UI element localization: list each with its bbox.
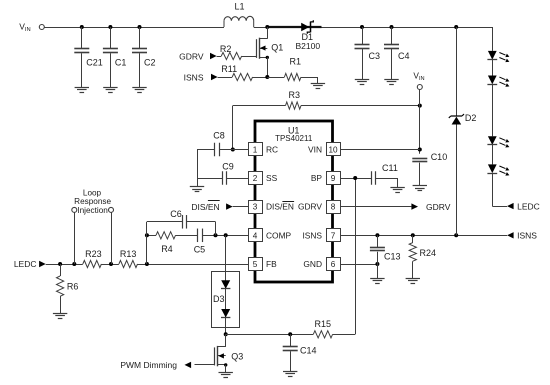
svg-text:RC: RC <box>266 145 278 155</box>
svg-text:SS: SS <box>266 173 278 183</box>
svg-text:ISNS: ISNS <box>184 72 204 82</box>
svg-text:C3: C3 <box>369 51 381 61</box>
svg-text:GND: GND <box>303 259 322 269</box>
svg-text:ISNS: ISNS <box>302 230 322 240</box>
svg-text:6: 6 <box>331 260 336 269</box>
svg-text:R6: R6 <box>67 281 79 291</box>
svg-text:C2: C2 <box>144 58 156 68</box>
svg-text:GDRV: GDRV <box>179 52 204 62</box>
svg-text:C21: C21 <box>86 58 103 68</box>
svg-text:Q1: Q1 <box>271 43 283 53</box>
svg-text:C11: C11 <box>382 163 398 173</box>
svg-text:BP: BP <box>311 173 323 183</box>
svg-text:D2: D2 <box>465 113 477 123</box>
svg-text:Injection: Injection <box>77 206 108 215</box>
svg-text:C4: C4 <box>398 51 410 61</box>
svg-text:L1: L1 <box>235 2 245 12</box>
svg-text:R15: R15 <box>315 319 332 329</box>
svg-text:8: 8 <box>331 203 336 212</box>
svg-text:4: 4 <box>253 231 258 240</box>
svg-text:R23: R23 <box>85 249 102 259</box>
svg-text:7: 7 <box>331 231 336 240</box>
svg-text:R1: R1 <box>290 56 302 66</box>
svg-text:R11: R11 <box>221 64 237 74</box>
svg-text:R3: R3 <box>289 90 301 100</box>
svg-text:VIN: VIN <box>308 145 322 155</box>
svg-text:FB: FB <box>266 259 277 269</box>
svg-text:3: 3 <box>253 203 258 212</box>
svg-text:GDRV: GDRV <box>426 202 451 212</box>
svg-text:R4: R4 <box>161 244 173 254</box>
svg-text:5: 5 <box>253 260 258 269</box>
svg-text:C13: C13 <box>384 251 401 261</box>
svg-text:R2: R2 <box>220 44 232 54</box>
svg-text:C6: C6 <box>170 209 182 219</box>
svg-text:C8: C8 <box>213 131 225 141</box>
svg-text:C1: C1 <box>115 58 127 68</box>
svg-text:C5: C5 <box>194 244 206 254</box>
svg-text:10: 10 <box>328 146 338 155</box>
svg-text:GDRV: GDRV <box>298 202 322 212</box>
svg-text:R24: R24 <box>420 248 437 258</box>
svg-text:DIS/EN: DIS/EN <box>266 202 294 212</box>
svg-text:C14: C14 <box>300 345 317 355</box>
svg-text:D3: D3 <box>213 294 225 304</box>
svg-text:Response: Response <box>74 197 111 206</box>
svg-text:PWM Dimming: PWM Dimming <box>120 360 177 370</box>
svg-text:LEDC: LEDC <box>14 259 37 269</box>
svg-text:COMP: COMP <box>266 230 292 240</box>
svg-text:C9: C9 <box>222 161 234 171</box>
svg-text:B2100: B2100 <box>296 41 321 51</box>
svg-text:Q3: Q3 <box>231 351 243 361</box>
svg-text:LEDC: LEDC <box>517 201 540 211</box>
svg-text:C10: C10 <box>431 152 448 162</box>
svg-text:9: 9 <box>331 174 336 183</box>
svg-text:R13: R13 <box>120 249 137 259</box>
svg-text:1: 1 <box>253 146 258 155</box>
svg-text:2: 2 <box>253 174 258 183</box>
svg-text:ISNS: ISNS <box>517 231 537 241</box>
svg-text:TPS40211: TPS40211 <box>275 134 313 143</box>
svg-text:DIS/EN: DIS/EN <box>191 202 219 212</box>
